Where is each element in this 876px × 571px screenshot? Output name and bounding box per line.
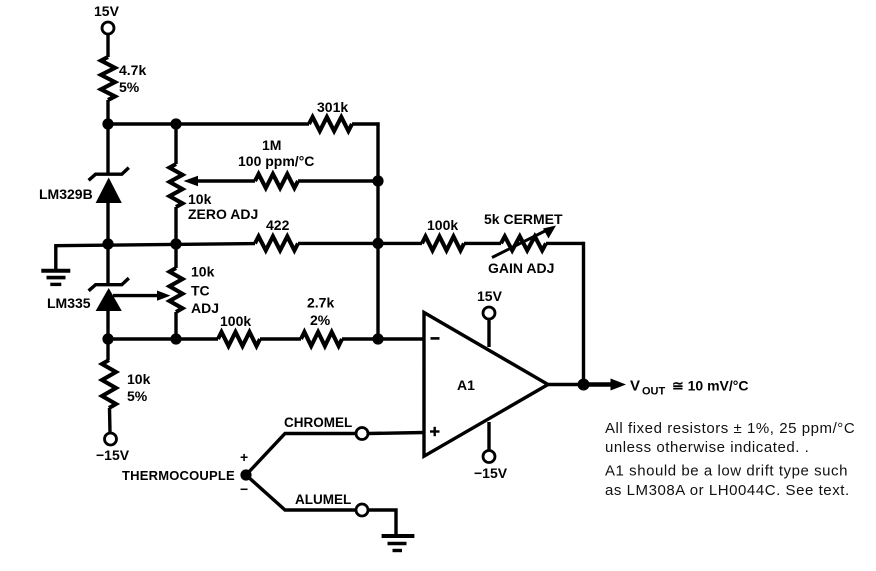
- wire R4.7k to node A: [106, 100, 109, 124]
- wire node E to 100k feedback: [378, 242, 422, 245]
- node top of ZERO ADJ: [170, 118, 181, 129]
- resistor 422: [255, 217, 298, 250]
- zener diode LM335: [47, 278, 129, 311]
- node G (TC pot bottom row): [170, 333, 181, 344]
- svg-text:10k: 10k: [127, 371, 151, 387]
- wire 100k to 5k cermet: [464, 242, 501, 245]
- resistor 100k (feedback): [422, 217, 464, 250]
- wire 301k to right bus: [352, 122, 380, 125]
- resistor 4.7k 5%: [101, 57, 146, 100]
- svg-text:100k: 100k: [220, 313, 251, 329]
- wire 422 to bus node E: [298, 242, 378, 245]
- svg-text:2.7k: 2.7k: [307, 295, 334, 311]
- svg-text:TC: TC: [191, 283, 210, 299]
- svg-text:ADJ: ADJ: [191, 300, 219, 316]
- zener diode LM329B: [39, 168, 129, 203]
- resistor 301k: [309, 99, 352, 131]
- svg-text:LM335: LM335: [47, 295, 91, 311]
- resistor 2.7k 2%: [301, 295, 342, 347]
- wire LM329B cathode segment: [106, 124, 109, 175]
- wire op-amp output: [548, 383, 586, 386]
- node J (output/feedback): [578, 379, 590, 391]
- wire cermet to feedback corner: [546, 242, 584, 245]
- wire row 3 left: [108, 337, 218, 340]
- svg-text:A1 should be a low drift type: A1 should be a low drift type such: [605, 463, 848, 480]
- wire between 100k and 2.7k: [260, 337, 301, 340]
- potentiometer 10k ZERO ADJ: [170, 124, 259, 244]
- node H (bus bottom): [372, 333, 383, 344]
- wire 15V to R 4.7k: [106, 34, 109, 57]
- resistor 100k (input): [218, 313, 260, 346]
- trimmer 5k CERMET (GAIN ADJ): [484, 211, 563, 276]
- wire LM335 anode to node F: [106, 311, 109, 339]
- VOUT label: [630, 378, 748, 398]
- svg-text:100k: 100k: [427, 217, 458, 233]
- svg-text:10k: 10k: [188, 191, 212, 207]
- ground (thermocouple): [382, 536, 415, 551]
- wire LM335 top: [106, 244, 109, 286]
- node B (bus at 1M): [372, 175, 383, 186]
- LM335 ADJ arrow to TC pot: [113, 291, 171, 301]
- svg-text:V: V: [630, 378, 640, 395]
- svg-text:100 ppm/°C: 100 ppm/°C: [238, 153, 314, 169]
- note text: [605, 420, 855, 499]
- svg-text:OUT: OUT: [642, 386, 666, 398]
- svg-text:ZERO ADJ: ZERO ADJ: [188, 206, 258, 222]
- wire node A to 301k: [104, 122, 309, 125]
- wire ground row (row 2): [54, 244, 255, 246]
- wire chromel diagonal: [246, 434, 356, 476]
- wire 1M to bus node B: [298, 179, 378, 182]
- ALUMEL terminal: [295, 492, 368, 516]
- -15V supply pin of A1: [474, 422, 508, 481]
- svg-text:1M: 1M: [262, 137, 281, 153]
- svg-text:5k CERMET: 5k CERMET: [484, 211, 563, 227]
- svg-text:THERMOCOUPLE: THERMOCOUPLE: [122, 468, 235, 483]
- svg-text:15V: 15V: [94, 3, 120, 19]
- node E (bus at 422): [372, 238, 383, 249]
- node D (ZERO/TC pot junction): [170, 238, 181, 249]
- svg-text:≅ 10 mV/°C: ≅ 10 mV/°C: [672, 378, 748, 394]
- svg-text:LM329B: LM329B: [39, 186, 93, 202]
- svg-text:10k: 10k: [191, 264, 215, 280]
- svg-text:−15V: −15V: [474, 465, 508, 481]
- wire alumel diagonal: [246, 475, 356, 510]
- svg-text:15V: 15V: [477, 288, 503, 304]
- svg-text:5%: 5%: [119, 79, 140, 95]
- svg-text:GAIN ADJ: GAIN ADJ: [488, 260, 554, 276]
- wire alumel to ground: [368, 510, 396, 534]
- svg-text:+: +: [240, 449, 248, 465]
- svg-text:2%: 2%: [310, 312, 331, 328]
- node F (LM335 anode row): [102, 333, 113, 344]
- wire right bus vertical: [376, 122, 379, 339]
- thermocouple junction: [122, 449, 252, 497]
- ground (left): [41, 246, 70, 285]
- svg-text:422: 422: [266, 217, 290, 233]
- svg-text:CHROMEL: CHROMEL: [284, 415, 352, 430]
- wiper arrow of ZERO ADJ: [184, 176, 256, 186]
- +15V supply pin of A1: [477, 288, 503, 347]
- op-amp A1: [424, 313, 548, 457]
- svg-text:4.7k: 4.7k: [119, 62, 146, 78]
- resistor 1M 100ppm: [238, 137, 314, 188]
- node C (LM329B/LM335 junction): [102, 238, 113, 249]
- wire 2.7k to op-amp inverting input: [342, 337, 424, 340]
- potentiometer 10k TC ADJ: [170, 244, 220, 339]
- node A (top of LM329B): [102, 118, 113, 129]
- svg-text:ALUMEL: ALUMEL: [295, 492, 351, 507]
- wire LM329B anode down to ground node: [106, 203, 109, 244]
- CHROMEL terminal: [284, 415, 368, 440]
- +15V terminal: [94, 3, 120, 34]
- svg-text:−15V: −15V: [96, 447, 130, 463]
- svg-text:5%: 5%: [127, 388, 148, 404]
- resistor 10k 5%: [102, 339, 151, 433]
- svg-text:as LM308A or LH0044C. See text: as LM308A or LH0044C. See text.: [605, 482, 850, 499]
- wire chromel to op-amp + input: [368, 433, 424, 434]
- svg-text:A1: A1: [457, 377, 475, 393]
- svg-text:−: −: [240, 481, 248, 497]
- -15V terminal (left): [96, 433, 130, 463]
- svg-text:All fixed resistors ± 1%, 25 p: All fixed resistors ± 1%, 25 ppm/°C: [605, 420, 855, 437]
- svg-text:301k: 301k: [317, 99, 348, 115]
- output arrow: [584, 379, 627, 391]
- svg-text:unless otherwise indicated. .: unless otherwise indicated. .: [605, 439, 809, 456]
- wire feedback vertical down to output node: [582, 242, 585, 385]
